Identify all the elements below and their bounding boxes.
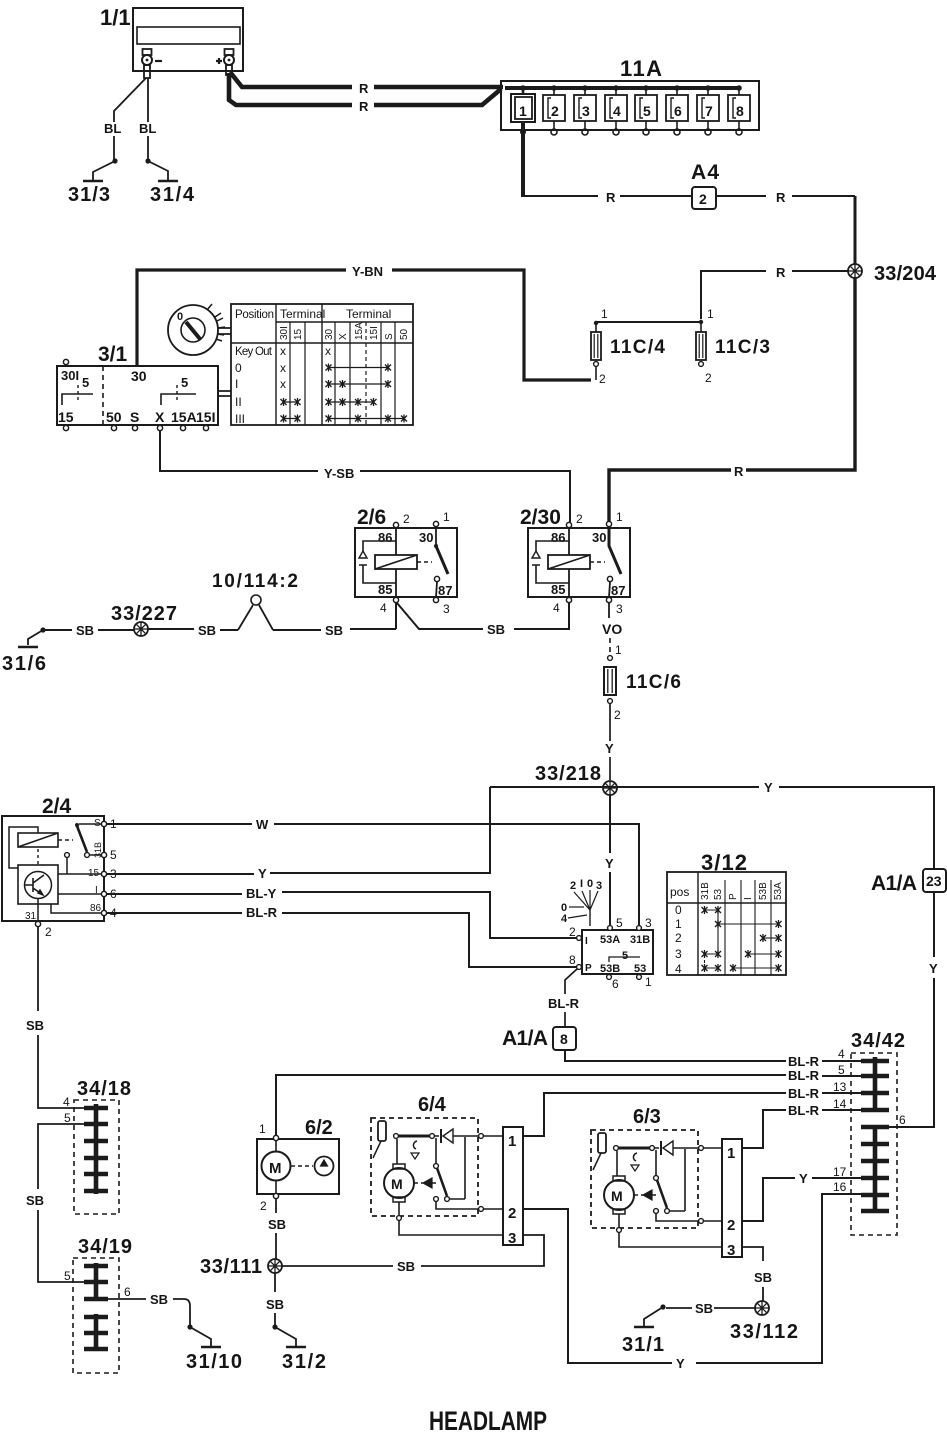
- svg-text:1: 1: [727, 1145, 735, 1162]
- wire BL-R connector A1/A 8 to 34/42 pin4: [565, 1047, 862, 1069]
- svg-text:R: R: [359, 81, 369, 96]
- svg-text:A1/A: A1/A: [871, 872, 917, 895]
- svg-text:87: 87: [438, 583, 452, 598]
- ground 31/3: [68, 181, 110, 206]
- svg-text:III: III: [235, 412, 245, 426]
- headlamp switch 2/4: [2, 795, 117, 939]
- svg-text:BL-R: BL-R: [246, 905, 278, 920]
- svg-text:6/3: 6/3: [633, 1106, 661, 1128]
- svg-text:Terminal: Terminal: [346, 307, 391, 321]
- wire BL-R switch 2/4 to switch 3/12: [107, 905, 576, 967]
- svg-text:SB: SB: [268, 1217, 286, 1232]
- svg-text:33/227: 33/227: [111, 603, 177, 625]
- svg-text:BL: BL: [104, 121, 121, 136]
- ground 31/10: [186, 1347, 242, 1373]
- svg-text:14: 14: [833, 1097, 847, 1111]
- svg-text:SB: SB: [487, 622, 505, 637]
- svg-text:11A: 11A: [620, 56, 662, 81]
- svg-text:33/204: 33/204: [874, 263, 937, 285]
- svg-text:50: 50: [106, 409, 122, 425]
- svg-text:2/30: 2/30: [520, 506, 561, 529]
- wire BL battery to ground 31/3: [93, 78, 146, 180]
- fuse 8: [728, 85, 750, 135]
- connector 34/19: [73, 1236, 132, 1373]
- wire SB splice 33/112 to ground 31/1: [644, 1301, 755, 1326]
- wire SB 34/19 pin6 to ground 31/10: [108, 1285, 211, 1346]
- svg-text:86: 86: [551, 530, 565, 545]
- svg-text:x: x: [280, 361, 286, 375]
- svg-text:15: 15: [293, 328, 304, 340]
- svg-text:4: 4: [675, 962, 682, 976]
- svg-text:0: 0: [177, 311, 183, 323]
- svg-text:R: R: [776, 265, 786, 280]
- svg-text:30I: 30I: [61, 368, 79, 383]
- svg-text:Y: Y: [258, 866, 267, 881]
- svg-text:31B: 31B: [700, 882, 711, 900]
- svg-text:5: 5: [181, 375, 188, 390]
- connector block 6/3 pins: [722, 1139, 742, 1259]
- svg-text:15I: 15I: [196, 409, 215, 425]
- svg-text:Y-SB: Y-SB: [324, 466, 354, 481]
- svg-text:1/1: 1/1: [100, 5, 131, 30]
- svg-text:33/112: 33/112: [730, 1321, 798, 1343]
- svg-text:SB: SB: [695, 1301, 713, 1316]
- wire SB ground 31/6 to splice 33/227: [45, 623, 134, 638]
- svg-text:Position: Position: [235, 309, 274, 321]
- svg-text:2: 2: [403, 512, 410, 526]
- svg-text:5: 5: [616, 916, 623, 930]
- svg-text:11C/6: 11C/6: [626, 672, 681, 693]
- wire Y connector A1/A 23 to 34/42 pin6: [889, 892, 938, 1127]
- svg-text:Y: Y: [764, 780, 773, 795]
- svg-text:Y: Y: [676, 1356, 685, 1371]
- svg-text:VO: VO: [602, 621, 622, 637]
- ground 31/6: [2, 627, 46, 675]
- svg-text:2: 2: [508, 1205, 516, 1222]
- wire SB 6/2 pin2 to splice 33/111: [268, 1199, 286, 1259]
- svg-text:pos: pos: [670, 885, 689, 899]
- wire SB 6/3 pin3 to splice 33/112: [742, 1247, 772, 1301]
- switch 3/12: [569, 850, 747, 991]
- svg-text:8: 8: [736, 103, 744, 119]
- svg-text:5: 5: [64, 1269, 71, 1283]
- splice 33/227: [111, 603, 177, 636]
- wire SB splice 33/111 down to ground 31/2: [266, 1273, 296, 1346]
- svg-text:31/6: 31/6: [2, 653, 46, 675]
- svg-text:HEADLAMP: HEADLAMP: [429, 1406, 547, 1436]
- svg-text:1: 1: [615, 643, 622, 657]
- svg-text:R: R: [734, 464, 744, 479]
- svg-text:BL: BL: [139, 121, 156, 136]
- svg-text:30: 30: [324, 328, 335, 340]
- svg-text:M: M: [269, 1160, 282, 1177]
- wire SB splice 33/227 to connector 10/114:2: [148, 623, 238, 638]
- ground 31/4: [150, 181, 195, 206]
- fusible link 11C/4: [591, 321, 665, 386]
- svg-text:2: 2: [569, 925, 576, 939]
- svg-text:x: x: [325, 344, 331, 358]
- svg-text:86: 86: [378, 530, 392, 545]
- wire Y 33/218 down to switch 3/12: [605, 795, 614, 925]
- svg-text:X: X: [338, 333, 349, 340]
- svg-text:85: 85: [378, 582, 392, 597]
- svg-text:Key Out: Key Out: [235, 346, 273, 358]
- svg-text:5: 5: [622, 950, 628, 962]
- battery 1/1: [100, 5, 243, 71]
- svg-text:31/2: 31/2: [282, 1351, 326, 1373]
- svg-text:5: 5: [82, 375, 89, 390]
- wire Y fuse 11C/6 to splice 33/218: [605, 704, 614, 780]
- svg-text:23: 23: [926, 873, 942, 889]
- svg-text:2: 2: [675, 931, 682, 945]
- fuse 5: [635, 85, 657, 135]
- wire link 11C/3 pin1 to 11C/4 pin1: [596, 307, 714, 322]
- svg-text:6/2: 6/2: [305, 1117, 333, 1139]
- wire 33/218 horizontal to A1/A 23: [490, 780, 934, 868]
- svg-text:1: 1: [707, 307, 714, 321]
- wire BL-R 6/4 pin1 to 34/42 pin13: [523, 1080, 862, 1136]
- svg-text:5: 5: [64, 1111, 71, 1125]
- wire R splice 33/204 to fusible links: [701, 265, 848, 319]
- connector key to table: [218, 328, 231, 334]
- svg-text:5: 5: [643, 103, 651, 119]
- svg-text:Y-BN: Y-BN: [352, 264, 383, 279]
- svg-text:4: 4: [838, 1047, 845, 1061]
- svg-text:8: 8: [569, 953, 576, 967]
- splice 33/218: [535, 763, 617, 795]
- fuse box 11A: [501, 56, 759, 130]
- svg-text:4: 4: [380, 601, 387, 615]
- svg-text:30: 30: [592, 530, 606, 545]
- svg-text:SB: SB: [76, 623, 94, 638]
- svg-text:3/1: 3/1: [98, 343, 128, 366]
- svg-text:R: R: [606, 190, 616, 205]
- svg-text:BL-Y: BL-Y: [246, 886, 277, 901]
- svg-text:4: 4: [613, 103, 621, 119]
- svg-text:2: 2: [699, 191, 707, 207]
- svg-text:3: 3: [727, 1242, 735, 1259]
- svg-text:R: R: [776, 190, 786, 205]
- svg-text:1: 1: [519, 103, 527, 119]
- svg-text:Y: Y: [605, 741, 614, 756]
- svg-text:2: 2: [614, 708, 621, 722]
- svg-text:8: 8: [560, 1031, 568, 1047]
- svg-text:BL-R: BL-R: [548, 996, 580, 1011]
- connector block 6/4 pins: [503, 1127, 523, 1247]
- svg-text:53: 53: [634, 963, 646, 975]
- svg-text:SB: SB: [26, 1193, 44, 1208]
- connector A4: [691, 161, 719, 209]
- svg-text:6: 6: [612, 977, 619, 991]
- splice 33/112: [730, 1301, 798, 1343]
- wire SB 34/18 pin5 to 34/19 pin5: [26, 1111, 85, 1283]
- svg-text:4: 4: [553, 601, 560, 615]
- svg-text:3: 3: [616, 602, 623, 616]
- wire Y 6/3 pin2 to 34/42 pin17: [742, 1165, 862, 1221]
- svg-text:A4: A4: [691, 161, 719, 184]
- svg-text:2: 2: [599, 372, 606, 386]
- svg-text:M: M: [611, 1188, 623, 1204]
- svg-text:SB: SB: [150, 1292, 168, 1307]
- svg-text:31/3: 31/3: [68, 184, 110, 206]
- svg-text:53B: 53B: [600, 963, 620, 975]
- svg-text:1: 1: [508, 1133, 516, 1150]
- wire SB splice 33/111 to 6/4 connector pin3: [282, 1235, 544, 1274]
- svg-text:Y: Y: [929, 961, 938, 976]
- wire Y-BN ignition 30 feed: [137, 264, 591, 380]
- in-line connector 10/114:2: [212, 571, 298, 630]
- svg-text:BL-R: BL-R: [788, 1103, 820, 1118]
- fuse 4: [605, 85, 627, 135]
- wire SB connector 10/114:2 to relay 2/6 pin4: [273, 603, 396, 638]
- fuse 1: [511, 85, 535, 135]
- svg-text:BL-R: BL-R: [788, 1054, 820, 1069]
- svg-text:4: 4: [63, 1095, 70, 1109]
- svg-text:11C/4: 11C/4: [610, 337, 665, 358]
- svg-text:15A: 15A: [171, 409, 197, 425]
- wire SB switch 2/4 pin2 to 34/18: [26, 927, 85, 1109]
- switch 3/12 table: [667, 872, 786, 976]
- svg-text:85: 85: [551, 582, 565, 597]
- svg-text:2: 2: [727, 1217, 735, 1234]
- wire Y switch 2/4 to splice 33/218 branch: [107, 787, 490, 881]
- fuse 11C/6: [604, 667, 681, 722]
- fuse 6: [666, 85, 688, 135]
- wire BL battery to ground 31/4: [139, 78, 168, 180]
- svg-text:Terminal: Terminal: [280, 307, 325, 321]
- wire BL-R 6/2 pin1 to 34/42 pin5: [276, 1063, 862, 1137]
- svg-text:30I: 30I: [279, 326, 290, 340]
- relay 2/30: [520, 506, 630, 616]
- fuse 7: [697, 85, 719, 135]
- svg-text:1: 1: [259, 1122, 266, 1136]
- svg-text:P: P: [585, 963, 592, 974]
- svg-text:33/218: 33/218: [535, 763, 601, 785]
- svg-text:P: P: [728, 893, 739, 900]
- svg-text:SB: SB: [198, 623, 216, 638]
- svg-text:SB: SB: [26, 1018, 44, 1033]
- svg-text:3: 3: [645, 916, 652, 930]
- svg-text:15A: 15A: [354, 322, 365, 340]
- connector A1/A 23: [871, 869, 946, 895]
- wire R connector A4 to splice: [716, 190, 855, 264]
- svg-text:SB: SB: [754, 1270, 772, 1285]
- svg-text:A1/A: A1/A: [502, 1027, 548, 1050]
- svg-text:SB: SB: [397, 1259, 415, 1274]
- wire BL-R switch 3/12 P to connector A1/A 8: [548, 969, 580, 1026]
- svg-text:I: I: [585, 936, 588, 947]
- ignition position table: [231, 304, 413, 426]
- svg-text:53A: 53A: [600, 934, 620, 946]
- svg-text:7: 7: [705, 103, 713, 119]
- wire W switch 2/4 to switch 3/12: [107, 817, 639, 925]
- headlamp wiper motor 6/3: [591, 1106, 722, 1247]
- svg-text:x: x: [280, 377, 286, 391]
- svg-text:W: W: [256, 817, 269, 832]
- wire Y-SB ignition X to relay 2/30: [160, 431, 570, 522]
- battery negative post: [142, 49, 162, 78]
- svg-text:5: 5: [838, 1063, 845, 1077]
- svg-text:33/111: 33/111: [200, 1256, 262, 1278]
- svg-text:2: 2: [576, 512, 583, 526]
- svg-text:6: 6: [899, 1113, 906, 1127]
- svg-text:2: 2: [570, 880, 576, 892]
- svg-text:3: 3: [582, 103, 590, 119]
- wire SB relay 2/6 pin4 to relay 2/30 pin4: [397, 603, 569, 637]
- svg-text:R: R: [359, 99, 369, 114]
- svg-text:3: 3: [596, 880, 602, 892]
- svg-text:53A: 53A: [773, 882, 784, 900]
- svg-text:1: 1: [675, 917, 682, 931]
- svg-text:M: M: [391, 1176, 403, 1192]
- wire R battery to fuse box (upper): [230, 72, 503, 96]
- svg-text:31/4: 31/4: [150, 184, 195, 206]
- switch 3/12 position pointer: [561, 878, 602, 926]
- svg-text:1: 1: [601, 307, 608, 321]
- svg-text:31/10: 31/10: [186, 1351, 242, 1373]
- connector 3/1 to table: [218, 391, 231, 396]
- wire 6/4 pin2 to 34/42 pin16: [523, 1180, 862, 1371]
- wire BL-R 6/3 pin1 to 34/42 pin14: [742, 1097, 862, 1148]
- svg-text:2/4: 2/4: [42, 795, 72, 818]
- svg-text:31/1: 31/1: [622, 1334, 664, 1356]
- ignition switch 3/1: [57, 343, 218, 431]
- svg-text:Y: Y: [605, 856, 614, 871]
- svg-text:S: S: [130, 409, 139, 425]
- svg-text:2: 2: [551, 103, 559, 119]
- fuse 2: [543, 85, 565, 135]
- svg-text:1: 1: [645, 975, 652, 989]
- svg-text:53: 53: [713, 888, 724, 900]
- wire fuse 1 output down: [521, 121, 525, 197]
- fusible link 11C/3: [696, 320, 770, 385]
- svg-text:Y: Y: [799, 1171, 808, 1186]
- svg-text:30: 30: [131, 368, 147, 384]
- svg-text:34/19: 34/19: [78, 1236, 132, 1258]
- svg-text:3: 3: [675, 947, 682, 961]
- connector A1/A 8: [502, 1027, 576, 1050]
- svg-text:30: 30: [419, 530, 433, 545]
- svg-text:4: 4: [561, 913, 568, 925]
- svg-text:17: 17: [833, 1165, 847, 1179]
- svg-text:34/42: 34/42: [851, 1030, 905, 1052]
- svg-text:15: 15: [58, 409, 74, 425]
- connector 34/42: [851, 1030, 905, 1235]
- svg-text:87: 87: [611, 583, 625, 598]
- svg-text:0: 0: [675, 903, 682, 917]
- svg-text:13: 13: [833, 1080, 847, 1094]
- svg-text:1: 1: [443, 510, 450, 524]
- splice 33/204: [848, 263, 937, 285]
- svg-text:6: 6: [674, 103, 682, 119]
- ignition key symbol: [168, 304, 225, 355]
- svg-text:S: S: [384, 333, 395, 340]
- svg-text:I: I: [235, 377, 238, 391]
- svg-text:II: II: [235, 395, 242, 409]
- svg-text:6: 6: [124, 1285, 131, 1299]
- svg-text:SB: SB: [266, 1297, 284, 1312]
- svg-text:2: 2: [45, 925, 52, 939]
- svg-text:X: X: [155, 409, 165, 425]
- svg-text:x: x: [280, 344, 286, 358]
- svg-text:11C/3: 11C/3: [715, 337, 770, 358]
- svg-text:2/6: 2/6: [357, 506, 386, 529]
- ground 31/1: [622, 1327, 664, 1356]
- svg-text:BL-R: BL-R: [788, 1086, 820, 1101]
- wire BL-Y switch 2/4 to switch 3/12: [107, 886, 576, 938]
- svg-text:6/4: 6/4: [418, 1094, 447, 1116]
- washer pump 6/2: [257, 1117, 339, 1213]
- headlamp wiper motor 6/4: [371, 1094, 503, 1235]
- svg-text:1: 1: [616, 510, 623, 524]
- svg-text:I: I: [743, 897, 754, 900]
- splice 33/111: [200, 1256, 282, 1278]
- battery positive post: [216, 49, 234, 75]
- svg-text:3: 3: [508, 1230, 516, 1247]
- svg-text:15I: 15I: [369, 326, 380, 340]
- svg-text:31: 31: [25, 911, 37, 922]
- svg-text:SB: SB: [325, 623, 343, 638]
- svg-text:53B: 53B: [758, 882, 769, 900]
- svg-text:I: I: [580, 878, 583, 890]
- relay 2/6: [355, 506, 457, 616]
- svg-text:0: 0: [235, 361, 242, 375]
- svg-text:2: 2: [260, 1199, 267, 1213]
- connector 34/18: [74, 1078, 131, 1214]
- svg-text:10/114:2: 10/114:2: [212, 571, 298, 592]
- svg-text:34/18: 34/18: [77, 1078, 131, 1100]
- svg-text:BL-R: BL-R: [788, 1068, 820, 1083]
- wire R fuse 1 to connector A4: [523, 190, 692, 205]
- svg-text:3: 3: [443, 602, 450, 616]
- wire R battery to fuse box (lower): [229, 73, 501, 114]
- svg-text:31B: 31B: [630, 934, 650, 946]
- svg-text:50: 50: [399, 328, 410, 340]
- wire VO relay 2/30 pin3 to fuse 11C/6: [602, 603, 622, 660]
- svg-text:0: 0: [587, 878, 593, 890]
- ground 31/2: [282, 1347, 326, 1373]
- fuse 3: [574, 85, 596, 135]
- svg-text:16: 16: [833, 1180, 847, 1194]
- wire R splice 33/204 down to relay 2/30: [609, 278, 855, 521]
- svg-text:5: 5: [110, 848, 117, 862]
- svg-text:2: 2: [705, 371, 712, 385]
